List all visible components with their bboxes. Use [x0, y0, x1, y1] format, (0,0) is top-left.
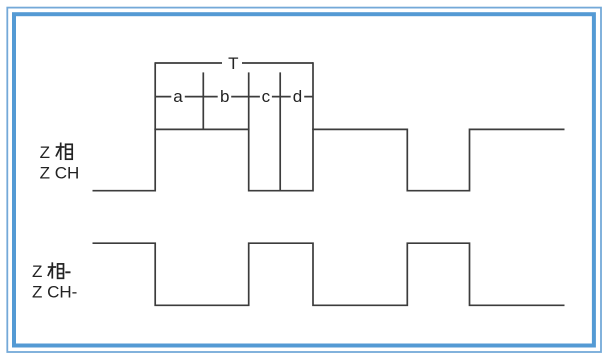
label b gap — [218, 90, 232, 103]
hanzi 相 (drawn) for line 1 — [56, 143, 72, 161]
dimension line T — [155, 62, 313, 64]
svg-text:d: d — [293, 87, 302, 106]
label T gap — [222, 55, 242, 67]
dimension tick right at T end — [312, 62, 314, 130]
waveform Z CH — [93, 129, 565, 190]
dimension tick left at T start — [154, 62, 156, 130]
dimension line a b c d — [155, 96, 313, 98]
svg-text:b: b — [220, 87, 229, 106]
hanzi 相 (drawn) for line 2 — [48, 262, 64, 278]
dimension tick c|d — [279, 72, 281, 190]
dimension tick a|b — [202, 72, 204, 130]
dimension tick b|c — [248, 72, 250, 130]
svg-text:Z: Z — [40, 143, 50, 162]
dash after 相 — [65, 271, 70, 273]
svg-text:T: T — [228, 54, 238, 73]
svg-text:a: a — [173, 87, 183, 106]
svg-text:Z: Z — [32, 262, 42, 281]
label d gap — [291, 90, 305, 103]
label a gap — [171, 90, 185, 103]
label c gap — [260, 90, 272, 103]
waveform Z CH- — [93, 243, 565, 305]
svg-text:c: c — [262, 87, 271, 106]
svg-text:Z CH-: Z CH- — [32, 283, 77, 302]
svg-text:Z CH: Z CH — [40, 164, 80, 183]
